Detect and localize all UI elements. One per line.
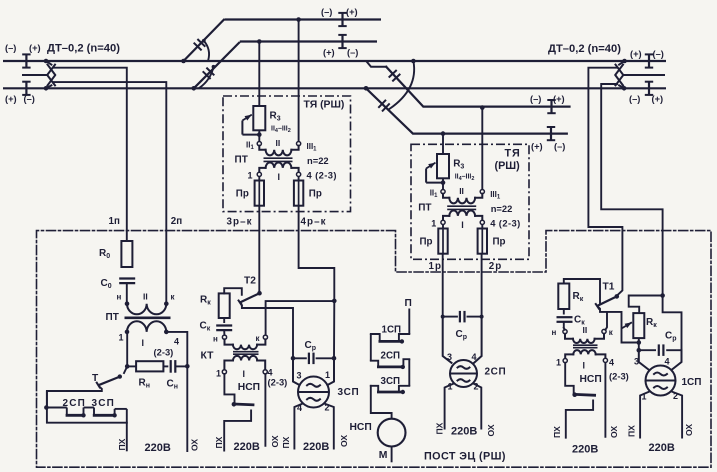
wire siding lower to R3 TYa2 xyxy=(442,134,444,154)
svg-text:220В: 220В xyxy=(649,442,675,454)
wire siding lower rail end xyxy=(551,133,568,135)
svg-text:1СП: 1СП xyxy=(682,377,702,388)
wire Cp right seg 2SP xyxy=(467,316,482,318)
wire KT1 to NSP contact xyxy=(224,374,234,403)
fuse Pr left TYa1 xyxy=(255,181,264,206)
wire 4rk down to machine 1 xyxy=(333,301,335,358)
node junction rail1 TYa1 xyxy=(296,17,301,22)
svg-text:1: 1 xyxy=(216,369,221,379)
contact 1SP xyxy=(371,334,410,344)
svg-text:220В: 220В xyxy=(145,442,171,454)
contact T xyxy=(96,366,127,388)
wire machine3 entry 2SP xyxy=(443,317,452,363)
wire upper track rail 2 xyxy=(240,40,377,42)
svg-text:n=22: n=22 xyxy=(491,203,513,214)
svg-text:1п: 1п xyxy=(109,216,120,227)
wire right bond tap A xyxy=(588,68,622,296)
svg-text:н: н xyxy=(213,335,218,344)
motor M circle xyxy=(378,419,406,447)
wire Cp wire left 3SP xyxy=(293,357,307,359)
svg-text:Т: Т xyxy=(92,373,99,384)
node junction top rail right bond xyxy=(622,59,627,64)
wire main track bottom rail xyxy=(3,87,666,89)
wire 2SP to 3SP xyxy=(408,359,410,386)
node junction bottom rail right bond xyxy=(622,86,627,91)
resistor R0 xyxy=(121,241,132,267)
wire Cn to OX xyxy=(175,365,187,367)
transformer NSP6 winding II xyxy=(565,334,604,343)
resistor R3 TYa2 xyxy=(437,154,449,178)
wire 1r to machine xyxy=(442,254,444,317)
wire Cp right seg 1SP xyxy=(666,349,681,351)
svg-text:3р–к: 3р–к xyxy=(227,216,253,227)
capacitor Cn xyxy=(171,360,176,373)
transformer KT core xyxy=(233,352,259,355)
svg-text:П: П xyxy=(405,298,412,309)
capacitor Cp 3SP xyxy=(309,353,314,365)
node Cp left 2SP xyxy=(441,315,445,319)
wire machine3 entry left xyxy=(293,358,300,385)
node R3 bottom junction TYa2 xyxy=(441,180,446,185)
wire KT4 to OX xyxy=(264,374,266,447)
wire Rn branch xyxy=(127,365,136,367)
svg-text:(–): (–) xyxy=(321,7,332,17)
contact T1 xyxy=(595,294,619,309)
svg-text:н: н xyxy=(552,328,557,337)
wire 4 to fuse TYa2 xyxy=(481,225,483,229)
terminal 4 KT xyxy=(263,370,267,374)
wire Ck to n section6 xyxy=(563,322,565,328)
fuse Pr right TYa1 xyxy=(294,181,303,206)
node junction rail2 TYa1 xyxy=(257,39,262,44)
wire machine 1SP bottom right xyxy=(672,392,683,438)
machine 3SP chord xyxy=(299,391,329,393)
svg-text:ПХ: ПХ xyxy=(214,436,224,448)
svg-text:ТЯ (РШ): ТЯ (РШ) xyxy=(304,100,345,111)
svg-text:3: 3 xyxy=(634,357,639,367)
wire 4 to fuse TYa1 xyxy=(298,177,300,181)
svg-text:1р: 1р xyxy=(429,261,442,272)
node PT II left xyxy=(125,301,130,306)
wire rail1 to III1 TYa1 xyxy=(298,20,300,142)
rheostat arm Rk right xyxy=(622,322,632,328)
node 4r-k junction xyxy=(332,299,337,304)
machine 3SP tilde bottom xyxy=(307,398,320,401)
wire T2 fixed path xyxy=(241,304,293,359)
svg-text:ДТ–0,2 (n=40): ДТ–0,2 (n=40) xyxy=(548,43,621,55)
insulated joint diagonal B xyxy=(378,100,389,112)
wire machine4 entry 1SP xyxy=(672,350,682,370)
node junction bottom rail right turnout xyxy=(364,86,369,91)
svg-text:4: 4 xyxy=(174,337,179,347)
contact 3SP cascade xyxy=(371,386,410,394)
svg-text:Т1: Т1 xyxy=(603,281,615,292)
box TYa2 border (dash-dot) xyxy=(411,144,529,259)
svg-text:4: 4 xyxy=(609,358,614,368)
svg-text:I: I xyxy=(278,172,281,182)
wire Cp left seg 2SP xyxy=(443,316,458,318)
capacitor Ck section6 xyxy=(557,317,573,322)
svg-text:2п: 2п xyxy=(171,216,182,227)
svg-text:3: 3 xyxy=(447,352,452,362)
wire Rn to Cn xyxy=(163,365,168,367)
node SP row left xyxy=(44,405,49,410)
svg-text:(+): (+) xyxy=(346,7,358,17)
resistor Rk right xyxy=(633,313,644,338)
wire bond tap B to 2p xyxy=(54,82,167,304)
transformer PT main winding I xyxy=(127,321,166,332)
svg-text:ОХ: ОХ xyxy=(486,424,496,436)
wire Rk to Ck xyxy=(223,318,225,323)
wire machine3 entry 1SP xyxy=(639,350,649,369)
svg-text:КТ: КТ xyxy=(201,351,215,362)
svg-text:(–): (–) xyxy=(530,94,541,104)
svg-text:Т2: Т2 xyxy=(244,276,256,287)
resistor R3 TYa1 xyxy=(253,106,265,130)
terminal III1 TYa1 xyxy=(297,142,301,146)
wire NSP6 1 to contact xyxy=(565,363,574,394)
wire diagonal rail to upper track 2 xyxy=(194,42,240,88)
svg-text:1: 1 xyxy=(325,370,330,380)
svg-text:ПТ: ПТ xyxy=(418,202,431,213)
svg-text:4 (2-3): 4 (2-3) xyxy=(490,218,520,229)
wire diagonal rail to upper track 1 xyxy=(184,19,225,61)
svg-text:ОХ: ОХ xyxy=(190,439,200,451)
svg-text:ОХ: ОХ xyxy=(270,435,280,447)
wire 4r-k path xyxy=(299,206,335,301)
wire motor bottom xyxy=(391,447,393,463)
capacitor Cp 1SP xyxy=(659,344,664,356)
node junction siding lower to TYa2 xyxy=(441,131,446,136)
svg-text:ДТ–0,2 (n=40): ДТ–0,2 (n=40) xyxy=(47,43,120,55)
terminal III1 TYa2 xyxy=(480,190,484,194)
svg-text:(+): (+) xyxy=(29,43,41,53)
svg-text:(–): (–) xyxy=(653,49,664,59)
svg-text:ОХ: ОХ xyxy=(684,424,694,436)
svg-text:4 (2-3): 4 (2-3) xyxy=(307,170,337,181)
capacitor C0 xyxy=(119,279,135,284)
svg-text:Пр: Пр xyxy=(420,236,433,247)
node junction T/Rn xyxy=(125,364,130,369)
wire machine 3SP bottom right xyxy=(324,404,334,449)
terminal n KT xyxy=(222,335,226,339)
wire II1 to fuse TYa2 xyxy=(442,225,444,229)
wire k riser NSP6 xyxy=(605,312,607,330)
insulated joint left top rail xyxy=(22,54,30,67)
insulated joint diagonal1 xyxy=(194,39,206,50)
wire branch stub right turnout xyxy=(367,62,386,67)
wire machine 2SP bottom left xyxy=(445,384,454,429)
wire right bond tap B xyxy=(601,84,662,296)
fuse Pr right TYa2 xyxy=(478,229,487,254)
svg-text:НСП: НСП xyxy=(238,382,260,393)
node PT I right xyxy=(164,330,169,335)
svg-text:НСП: НСП xyxy=(350,422,372,433)
machine 1SP chord xyxy=(646,380,675,382)
capacitor Cp 2SP xyxy=(460,311,465,323)
svg-text:(+): (+) xyxy=(531,142,543,152)
node junction bottom rail left bond xyxy=(44,86,49,91)
wire Cp wire right 3SP xyxy=(316,357,334,359)
svg-text:I: I xyxy=(142,338,145,348)
wire Cp wire 2SP xyxy=(443,316,482,318)
svg-text:ТЯ: ТЯ xyxy=(505,148,521,160)
wire bond midpoint stub right xyxy=(622,74,665,76)
wire Rk branch xyxy=(224,288,242,295)
wire machine 3SP bottom left xyxy=(294,404,302,449)
wire k riser KT xyxy=(266,301,335,335)
svg-text:220В: 220В xyxy=(234,441,260,453)
svg-text:3СП: 3СП xyxy=(338,387,360,398)
node junction Cn OX xyxy=(185,364,190,369)
wire Rk to Ck section6 xyxy=(563,309,565,315)
svg-text:II: II xyxy=(143,292,148,302)
svg-text:ПОСТ ЭЦ (РШ): ПОСТ ЭЦ (РШ) xyxy=(424,451,506,463)
svg-text:ПХ: ПХ xyxy=(626,425,636,437)
svg-text:н: н xyxy=(117,293,122,302)
wire Rk junction down xyxy=(638,343,640,351)
wire T2 path down left machine xyxy=(292,308,294,358)
terminal 4 NSP6 xyxy=(603,358,607,362)
contact 2SP xyxy=(47,408,86,418)
wire machine1 entry right xyxy=(328,358,335,385)
svg-text:(2-3): (2-3) xyxy=(154,347,174,358)
terminal 4 TYa1 xyxy=(297,172,301,176)
machine 1SP tilde top xyxy=(654,373,667,376)
wire 3SP to motor xyxy=(371,386,392,419)
node PT II right xyxy=(164,301,169,306)
wire T1 fixed path xyxy=(598,307,639,343)
node Rk bottom junction xyxy=(637,340,642,345)
wire P stub xyxy=(408,309,410,335)
transformer PT TYa2 winding I xyxy=(443,211,482,221)
turnout curve arc left upper xyxy=(202,39,209,60)
capacitor Ck section2 xyxy=(216,326,232,331)
svg-text:2СП: 2СП xyxy=(485,367,507,378)
resistor Rn xyxy=(136,361,163,371)
wire PH feed section1 xyxy=(126,409,128,451)
wire n jog NSP6 xyxy=(564,328,565,330)
contact NSP6 xyxy=(572,392,596,397)
box POST EC border left+bottom+top-left (dash-dot) xyxy=(37,231,712,468)
wire diagonal B right turnout xyxy=(366,88,551,133)
wire siding upper to III1 TYa2 xyxy=(481,108,483,190)
transformer PT main winding II xyxy=(127,304,166,315)
wire machine 1SP bottom left xyxy=(640,392,649,438)
wire R3 to II1 TYa1 xyxy=(258,130,260,141)
insulated joint right top rail xyxy=(645,54,653,67)
svg-text:ПХ: ПХ xyxy=(281,436,291,448)
wire right tap to Rk top xyxy=(629,296,663,314)
insulated joint left bottom rail xyxy=(22,82,30,95)
wire Rk top path section6 xyxy=(564,279,600,304)
wire R3 to II1 TYa2 xyxy=(442,178,444,189)
svg-text:3: 3 xyxy=(297,371,302,381)
transformer NSP6 winding I xyxy=(565,350,605,358)
machine 3SP circle xyxy=(298,377,329,408)
wire bond midpoint stub left xyxy=(22,74,49,76)
contact T2 xyxy=(238,291,262,306)
node Cp left junction 3SP xyxy=(291,356,296,361)
svg-text:I: I xyxy=(243,369,246,379)
wire 2r to machine xyxy=(481,254,483,317)
wire bond tap A to 1p xyxy=(54,68,127,241)
svg-text:(–): (–) xyxy=(629,94,640,104)
machine 2SP circle xyxy=(450,360,477,387)
svg-text:1: 1 xyxy=(248,171,253,181)
svg-text:ПТ: ПТ xyxy=(106,312,119,323)
node Cp right junction 3SP xyxy=(332,356,337,361)
svg-text:I: I xyxy=(461,220,464,230)
terminal 1 TYa2 xyxy=(441,220,445,224)
terminal k NSP6 xyxy=(602,329,606,333)
fuse Pr left TYa2 xyxy=(438,229,447,254)
wire C0 to PT n xyxy=(126,283,128,304)
terminal II1 TYa1 xyxy=(257,142,261,146)
svg-text:II: II xyxy=(583,325,588,335)
node right tap junction xyxy=(660,293,665,298)
svg-text:Пр: Пр xyxy=(236,188,249,199)
svg-text:1: 1 xyxy=(556,358,561,368)
impedance bond DT1 xyxy=(46,61,55,88)
wire NSP fixed to PH xyxy=(224,411,251,451)
rheostat arm R3 TYa1 xyxy=(242,115,259,135)
wire right tap to machine4 xyxy=(663,296,682,350)
wire PT4 right xyxy=(166,332,187,451)
rheostat arm R3 TYa2 xyxy=(426,163,443,183)
machine 2SP tilde bottom xyxy=(458,379,470,382)
svg-text:3СП: 3СП xyxy=(92,398,116,409)
svg-text:n=22: n=22 xyxy=(307,155,329,166)
svg-text:ПХ: ПХ xyxy=(435,422,445,434)
svg-text:I: I xyxy=(583,361,586,371)
wire diagonal A right turnout xyxy=(386,67,551,107)
impedance bond DT2 xyxy=(616,61,625,88)
svg-text:(–): (–) xyxy=(347,48,358,58)
svg-text:ПХ: ПХ xyxy=(117,438,127,450)
svg-text:(+): (+) xyxy=(652,94,664,104)
resistor Rk left6 xyxy=(558,284,569,310)
svg-text:Пр: Пр xyxy=(309,188,322,199)
wire SP row left stub xyxy=(46,391,48,408)
insulated joint right bottom rail xyxy=(645,82,653,95)
machine 3SP tilde top xyxy=(307,384,320,387)
svg-text:(2-3): (2-3) xyxy=(268,377,288,388)
svg-text:М: М xyxy=(379,450,388,461)
insulated joint siding upper xyxy=(547,100,555,113)
svg-text:(+): (+) xyxy=(553,94,565,104)
svg-text:(+): (+) xyxy=(323,48,335,58)
svg-text:1: 1 xyxy=(119,333,124,343)
wire machine4 entry 2SP xyxy=(474,317,482,363)
wire rail2 to R3 TYa1 xyxy=(258,42,260,107)
terminal n NSP6 xyxy=(563,330,567,334)
svg-text:(2-3): (2-3) xyxy=(609,371,629,382)
wire 1SP to 2SP xyxy=(370,334,372,361)
svg-text:ПХ: ПХ xyxy=(552,426,562,438)
svg-text:ОХ: ОХ xyxy=(609,426,619,438)
svg-text:II: II xyxy=(459,186,464,196)
machine 1SP circle xyxy=(646,366,676,396)
wire 3r-k down to T2 xyxy=(258,206,260,294)
wire siding upper rail end xyxy=(552,105,571,107)
terminal 1 NSP6 xyxy=(563,359,567,363)
svg-text:220В: 220В xyxy=(451,426,477,438)
node junction top rail left bond xyxy=(44,59,49,64)
svg-text:1: 1 xyxy=(431,219,436,229)
transformer KT winding I xyxy=(224,356,265,370)
svg-text:2СП: 2СП xyxy=(381,351,401,362)
svg-text:НСП: НСП xyxy=(580,374,602,385)
wire T to SP row xyxy=(47,387,127,423)
turnout curve arc right xyxy=(390,61,415,109)
svg-text:II: II xyxy=(276,138,281,148)
transformer PT TYa2 winding II xyxy=(443,194,482,204)
terminal II1 TYa2 xyxy=(441,190,445,194)
wire Rk bottom xyxy=(638,338,640,342)
transformer PT TYa1 winding I xyxy=(259,163,298,173)
transformer KT winding II xyxy=(225,339,266,349)
contact 2SP cascade xyxy=(371,359,410,369)
svg-text:4р–к: 4р–к xyxy=(301,216,327,227)
transformer NSP6 core xyxy=(573,345,598,348)
machine 2SP chord xyxy=(451,373,477,375)
contact 3SP xyxy=(84,408,127,418)
node junction top rail right turnout xyxy=(411,59,416,64)
wire main track top rail xyxy=(3,60,666,62)
wire Cp left seg 1SP xyxy=(639,349,656,351)
svg-text:4: 4 xyxy=(472,352,477,362)
svg-text:(+): (+) xyxy=(5,94,17,104)
svg-text:220В: 220В xyxy=(303,441,329,453)
terminal 4 TYa2 xyxy=(480,220,484,224)
svg-text:2р: 2р xyxy=(489,261,502,272)
wire machine 2SP bottom right xyxy=(473,384,481,429)
terminal 1 KT xyxy=(222,370,226,374)
machine 1SP tilde bottom xyxy=(654,386,667,389)
svg-text:4: 4 xyxy=(665,357,670,367)
insulated joint upper rail 2 xyxy=(338,35,346,48)
svg-text:(–): (–) xyxy=(5,43,16,53)
box TYa1 border (dash-dot) xyxy=(223,96,351,212)
svg-text:3СП: 3СП xyxy=(381,376,401,387)
transformer PT TYa1 core xyxy=(264,158,293,161)
transformer PT TYa2 core xyxy=(447,206,476,209)
wire Ck to n KT xyxy=(223,330,225,335)
resistor Rk section2 xyxy=(219,293,230,318)
wire NSP6 fixed to PH xyxy=(566,401,593,438)
machine 2SP tilde top xyxy=(458,366,470,369)
terminal 1 TYa1 xyxy=(257,172,261,176)
svg-text:(–): (–) xyxy=(554,142,565,152)
insulated joint siding lower xyxy=(547,127,555,140)
transformer PT main core xyxy=(125,316,171,319)
transformer PT TYa1 winding II xyxy=(259,146,298,156)
node Cp right 2SP xyxy=(480,315,484,319)
svg-text:Пр: Пр xyxy=(493,236,506,247)
node junction diagonal1 on top rail xyxy=(181,59,186,64)
wire PT1 to junction xyxy=(126,332,128,367)
insulated joint diagonal2 xyxy=(203,68,215,79)
terminal k KT xyxy=(263,335,267,339)
turnout curve arc left lower xyxy=(200,65,216,88)
svg-text:ПТ: ПТ xyxy=(235,154,248,165)
wire NSP6 4 to OX xyxy=(604,363,606,438)
insulated joint diagonal A xyxy=(389,70,401,81)
node junction diagonal2 on bottom rail xyxy=(192,86,197,91)
wire II1 to fuse TYa1 xyxy=(258,177,260,181)
svg-text:220В: 220В xyxy=(572,444,598,456)
